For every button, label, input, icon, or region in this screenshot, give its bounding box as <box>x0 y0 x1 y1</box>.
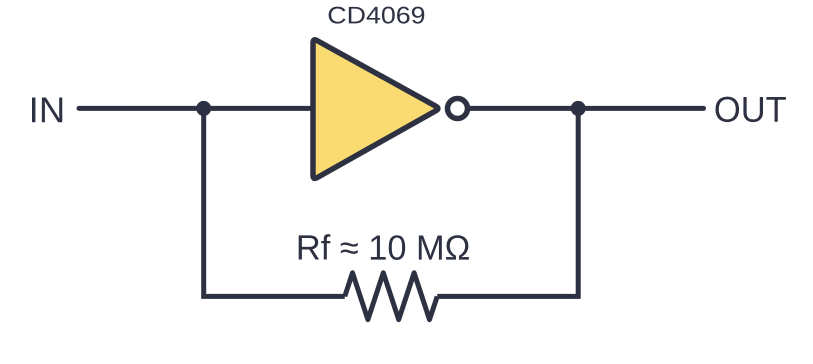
junction input node <box>196 101 211 116</box>
inverter U1 CD4069 triangle <box>313 40 438 179</box>
resistor Rf zigzag <box>345 273 437 320</box>
svg-text:CD4069: CD4069 <box>327 2 425 29</box>
svg-text:Rf ≈ 10 MΩ: Rf ≈ 10 MΩ <box>296 229 471 268</box>
feedback wire left vertical + bottom left <box>204 108 345 296</box>
svg-text:OUT: OUT <box>714 89 787 130</box>
svg-text:IN: IN <box>29 89 66 130</box>
feedback wire bottom right + right vertical <box>437 108 578 296</box>
wire inverter output to OUT <box>470 106 704 111</box>
wire IN to inverter input <box>79 106 313 111</box>
junction output node <box>571 101 586 116</box>
inversion bubble <box>448 99 468 119</box>
